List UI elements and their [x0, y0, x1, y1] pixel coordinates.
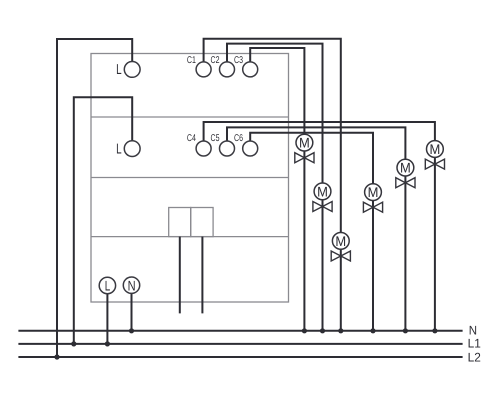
wire terminal L bottom to L1	[106, 294, 108, 344]
svg-text:M: M	[317, 184, 328, 200]
terminal C1	[187, 55, 211, 77]
wire valve M5 to N	[404, 176, 406, 331]
svg-text:N: N	[128, 277, 136, 293]
wire valve M6 to N	[434, 157, 436, 331]
divider 1	[91, 116, 289, 118]
terminal C6	[234, 133, 258, 156]
wire valve M3 to N	[340, 249, 342, 331]
terminal C2	[211, 55, 235, 77]
controller outline	[91, 54, 289, 303]
junction N / valve M3	[338, 328, 343, 333]
output block left box	[169, 208, 191, 237]
terminal C4	[187, 133, 211, 156]
wire C5 to valve M5	[227, 127, 405, 159]
svg-text:C4: C4	[187, 133, 196, 144]
svg-text:M: M	[335, 233, 346, 249]
wire C1 to valve M3	[204, 39, 341, 233]
valve actuator M3	[331, 233, 350, 262]
junction N / valve M4	[370, 328, 375, 333]
svg-text:C2: C2	[211, 55, 220, 66]
junction L1 / terminal L	[105, 341, 110, 346]
wire output block right stub	[201, 237, 203, 314]
wire C3 to valve M1	[250, 48, 304, 134]
terminal L bottom	[99, 277, 115, 293]
wire L2 feed to terminal L top	[57, 39, 132, 357]
wire valve M1 to N	[303, 151, 305, 331]
bus L1	[18, 343, 462, 345]
svg-text:M: M	[430, 141, 441, 157]
output block right box	[191, 208, 213, 237]
svg-text:L: L	[116, 62, 122, 78]
divider 2	[91, 177, 289, 179]
svg-text:C6: C6	[234, 133, 243, 144]
valve actuator M5	[396, 159, 415, 187]
wire C6 to valve M4	[250, 133, 373, 184]
terminal C5	[211, 133, 235, 156]
svg-text:L: L	[116, 141, 122, 157]
junction N / valve M1	[302, 328, 307, 333]
valve actuator M6	[425, 141, 444, 170]
svg-text:C1: C1	[187, 55, 196, 66]
wire C4 to valve M6	[204, 122, 435, 141]
junction N / valve M2	[320, 328, 325, 333]
wire terminal N bottom to N	[131, 293, 133, 330]
bus N	[18, 330, 462, 332]
bus L2	[18, 356, 462, 358]
wire output block left stub	[179, 237, 181, 314]
junction N / valve M5	[403, 328, 408, 333]
terminal C3	[234, 55, 258, 77]
junction N / terminal N	[129, 328, 134, 333]
valve actuator M1	[295, 134, 314, 162]
junction L1 / feed wire	[71, 341, 76, 346]
terminal L middle	[116, 141, 140, 158]
terminal N bottom	[123, 277, 139, 293]
svg-text:L1: L1	[468, 336, 481, 350]
svg-text:L2: L2	[468, 350, 481, 364]
svg-text:C3: C3	[234, 55, 243, 66]
divider 3	[91, 236, 289, 238]
junction L2 / feed wire	[54, 354, 59, 359]
svg-text:M: M	[400, 160, 411, 176]
valve actuator M2	[313, 183, 332, 212]
wire L1 feed to terminal L middle	[74, 97, 132, 344]
wire C2 to valve M2	[227, 44, 323, 184]
svg-text:C5: C5	[211, 133, 220, 144]
svg-text:L: L	[105, 278, 111, 294]
svg-text:M: M	[299, 135, 310, 151]
svg-text:M: M	[368, 184, 379, 200]
junction N / valve M6	[432, 328, 437, 333]
valve actuator M4	[363, 184, 382, 212]
terminal L top	[116, 62, 140, 78]
wire valve M4 to N	[372, 200, 374, 330]
wire valve M2 to N	[322, 200, 324, 331]
